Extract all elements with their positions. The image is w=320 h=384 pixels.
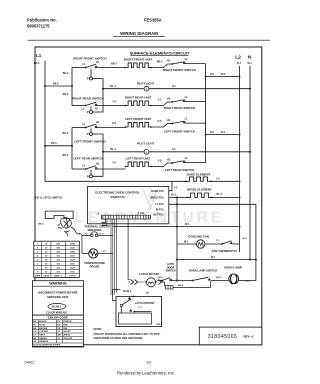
- switch LEFT REAR SWITCH (line side): [171, 162, 173, 164]
- wire gauge table: [34, 241, 80, 277]
- svg-text:BAT P10: BAT P10: [153, 213, 164, 216]
- svg-text:1 9J1: 1 9J1: [138, 212, 145, 215]
- latch cam sketch: [58, 218, 83, 237]
- wire bake to L2: [211, 180, 240, 182]
- svg-text:LATCH MOTOR: LATCH MOTOR: [139, 272, 159, 276]
- svg-text:1321: 1321: [70, 263, 76, 265]
- wire L1 bus: [45, 61, 186, 182]
- heating element BROIL ELEMENT: [187, 193, 212, 197]
- svg-text:RIGHT FRONT SWITCH: RIGHT FRONT SWITCH: [73, 56, 106, 60]
- warning box: [32, 281, 83, 315]
- wire element to line switch: [151, 64, 172, 68]
- svg-text:BL-1: BL-1: [243, 238, 249, 240]
- wire pilot feed: [103, 151, 144, 153]
- svg-text:NC: NC: [146, 293, 150, 295]
- svg-text:WIRING DIAGRAM: WIRING DIAGRAM: [120, 31, 158, 36]
- svg-text:Publication No.: Publication No.: [27, 18, 57, 23]
- wire rail tap to L2 (top): [206, 76, 240, 78]
- switch RIGHT FRONT SWITCH (line side): [171, 63, 173, 65]
- wire N bus: [249, 66, 251, 260]
- svg-text:RIGHT REAR UNIT: RIGHT REAR UNIT: [125, 96, 152, 100]
- svg-text:1321: 1321: [70, 255, 76, 257]
- svg-text:BK-2: BK-2: [63, 93, 69, 96]
- svg-text:5995371175: 5995371175: [27, 24, 50, 29]
- svg-text:COPPER: COPPER: [39, 331, 48, 333]
- svg-text:REV: A: REV: A: [244, 335, 255, 339]
- svg-text:RD: RD: [57, 325, 61, 327]
- svg-text:IN P10: IN P10: [156, 208, 164, 211]
- svg-text:TM. & LATCH SWITCH: TM. & LATCH SWITCH: [35, 196, 62, 200]
- svg-text:BK-3: BK-3: [63, 154, 69, 157]
- svg-text:ELECTRONIC OVEN CONTROL: ELECTRONIC OVEN CONTROL: [95, 190, 140, 194]
- svg-text:LEFT FRONT UNIT: LEFT FRONT UNIT: [125, 117, 152, 121]
- svg-text:BL/W: BL/W: [33, 345, 38, 347]
- svg-text:OVEN LAMP SWITCH: OVEN LAMP SWITCH: [189, 268, 217, 272]
- connector chevrons latch motor left: [131, 280, 138, 285]
- svg-text:W-1: W-1: [247, 62, 252, 65]
- wire harness left stubs: [102, 219, 108, 226]
- heating element RIGHT REAR UNIT: [126, 101, 151, 106]
- svg-text:BK-6: BK-6: [34, 62, 40, 65]
- heating element LEFT REAR UNIT: [126, 162, 151, 167]
- diagram border frame: [35, 47, 262, 345]
- node P terminal top: [90, 129, 92, 133]
- svg-text:WARNING: WARNING: [49, 282, 67, 286]
- svg-text:BLACK: BLACK: [39, 320, 47, 323]
- svg-text:W-1: W-1: [185, 223, 190, 226]
- svg-text:BK-1: BK-1: [217, 277, 223, 279]
- svg-text:GREY: GREY: [39, 335, 46, 337]
- svg-text:PROBE: PROBE: [90, 264, 100, 268]
- svg-text:BR: BR: [33, 328, 37, 330]
- switch RIGHT REAR SWITCH: [72, 105, 86, 107]
- lamp pilot light: [144, 86, 149, 91]
- svg-text:1321: 1321: [70, 268, 76, 270]
- svg-text:BK-2: BK-2: [63, 72, 69, 75]
- sensor temperature probe: [89, 249, 98, 258]
- svg-text:W-1: W-1: [211, 256, 216, 259]
- wire BK-4: [173, 281, 210, 287]
- svg-text:WIRE: WIRE: [35, 276, 41, 278]
- switch LEFT FRONT SWITCH (line side): [171, 123, 173, 125]
- svg-text:PU: PU: [57, 321, 60, 323]
- svg-text:BREAKER: BREAKER: [88, 228, 102, 232]
- svg-text:04/02: 04/02: [25, 360, 36, 365]
- wire EOC bake pin riser: [169, 181, 172, 190]
- wire number oval BL/W-1: [48, 303, 66, 309]
- svg-text:1321: 1321: [70, 272, 76, 274]
- wire switch block rails: [71, 68, 73, 106]
- svg-text:BR-5: BR-5: [157, 60, 163, 63]
- switch auto door: [161, 280, 163, 282]
- svg-text:318045065: 318045065: [208, 334, 238, 340]
- svg-text:O-5: O-5: [158, 120, 163, 123]
- svg-text:BK-6: BK-6: [51, 142, 57, 145]
- wire oven loop top: [177, 259, 256, 261]
- svg-text:RIGHT REAR SWITCH: RIGHT REAR SWITCH: [164, 106, 195, 110]
- connector latch motor right: [155, 280, 162, 285]
- svg-text:TEMP °C: TEMP °C: [54, 276, 63, 278]
- node P terminal bottom: [90, 170, 92, 175]
- svg-text:P: P: [87, 174, 89, 178]
- svg-text:W-1: W-1: [184, 240, 189, 243]
- svg-text:BL-2: BL-2: [171, 194, 177, 197]
- svg-text:CIRCUIT SHOWN WITH ALL CONTROL: CIRCUIT SHOWN WITH ALL CONTROLS SET TO '…: [94, 332, 162, 336]
- svg-text:LEFT REAR SWITCH: LEFT REAR SWITCH: [73, 156, 103, 160]
- svg-text:WHITE: WHITE: [63, 335, 70, 337]
- wire L1 pin to oven loop: [169, 204, 256, 259]
- color code table: [32, 315, 83, 347]
- switch door lock: [120, 304, 122, 306]
- svg-text:R-3: R-3: [221, 73, 226, 76]
- svg-text:BK-2: BK-2: [63, 132, 69, 135]
- svg-text:SURFACE-ELEMENTS-CIRCUIT: SURFACE-ELEMENTS-CIRCUIT: [130, 50, 190, 55]
- switch RIGHT REAR SWITCH (line side): [171, 101, 173, 103]
- wire probe right: [98, 253, 113, 255]
- header rule: [28, 39, 271, 41]
- svg-text:10: 10: [146, 360, 151, 365]
- switch LEFT FRONT SWITCH: [72, 127, 86, 129]
- svg-text:WH: WH: [57, 335, 61, 337]
- switch fan thermostat: [221, 243, 223, 245]
- svg-text:BM-3: BM-3: [157, 324, 163, 326]
- svg-text:SERVICING UNIT.: SERVICING UNIT.: [47, 295, 69, 299]
- svg-text:N: N: [248, 54, 252, 60]
- svg-text:BR-5: BR-5: [111, 63, 117, 66]
- svg-text:LEFT FRONT SWITCH: LEFT FRONT SWITCH: [164, 130, 195, 134]
- EOC P5 connector strip: [102, 215, 151, 219]
- wire breaker right: [98, 234, 113, 236]
- svg-text:PIL-1: PIL-1: [110, 148, 117, 151]
- svg-text:L1: L1: [36, 53, 42, 58]
- svg-text:GREEN: GREEN: [39, 338, 47, 340]
- lamp oven lamp: [229, 274, 239, 284]
- svg-text:LATCH MOTOR: LATCH MOTOR: [135, 301, 155, 305]
- node P terminal bottom: [90, 107, 92, 111]
- svg-text:BL/W-1: BL/W-1: [52, 305, 61, 309]
- motor cooling fan: [197, 240, 205, 248]
- svg-text:RED: RED: [63, 325, 68, 327]
- wire fan to thermostat: [205, 243, 222, 245]
- latch switch bracket: [45, 211, 73, 218]
- wire line-side rail: [205, 64, 207, 163]
- svg-text:BROIL ELEMENT: BROIL ELEMENT: [187, 188, 212, 192]
- svg-text:P: P: [87, 77, 89, 81]
- svg-text:OVEN DOOR CLOSED AND UNLOCKED.: OVEN DOOR CLOSED AND UNLOCKED.: [94, 336, 144, 340]
- svg-text:L2: L2: [235, 54, 241, 60]
- svg-text:LEFT FRONT SWITCH: LEFT FRONT SWITCH: [74, 140, 105, 144]
- svg-text:P: P: [87, 110, 89, 114]
- wire pilot feed: [103, 88, 144, 90]
- svg-text:SWITCH: SWITCH: [166, 270, 176, 273]
- svg-text:COLOR WIRE NO.: COLOR WIRE NO.: [46, 311, 68, 314]
- svg-text:L1 P10: L1 P10: [155, 203, 164, 206]
- node P terminal top: [90, 69, 92, 77]
- capacitor block: [162, 282, 166, 286]
- svg-text:O-5: O-5: [112, 122, 117, 125]
- svg-text:TAN: TAN: [63, 327, 68, 330]
- heating element BAKE ELEMENT: [186, 177, 211, 181]
- part number box: [199, 327, 261, 345]
- svg-text:PIL-1: PIL-1: [110, 85, 117, 88]
- svg-text:1304: 1304: [70, 242, 76, 245]
- svg-text:RIGHT FRONT SWITCH: RIGHT FRONT SWITCH: [163, 68, 196, 72]
- wire element to line switch: [151, 124, 172, 128]
- wire harness right line to latch motor: [128, 219, 130, 280]
- svg-text:P: P: [87, 132, 89, 136]
- wire lamp to loop right: [238, 260, 256, 281]
- wire rail tap to L2 (mid): [206, 134, 240, 136]
- wire EOC broil pin: [169, 196, 187, 198]
- wire breaker left down to probe: [82, 235, 90, 253]
- svg-text:BLUE: BLUE: [39, 325, 45, 327]
- heating element LEFT FRONT UNIT: [126, 122, 151, 127]
- svg-text:1321: 1321: [70, 259, 76, 261]
- lamp pilot light: [144, 149, 149, 154]
- wire fan feed: [177, 243, 196, 245]
- svg-text:R-4: R-4: [237, 62, 242, 65]
- wire switch block rails: [71, 128, 73, 170]
- svg-text:ES300 US: ES300 US: [110, 195, 124, 199]
- switch RIGHT FRONT SWITCH: [72, 67, 86, 69]
- svg-text:1321: 1321: [70, 247, 76, 249]
- door lock outer box: [116, 297, 162, 327]
- svg-text:GAGE: GAGE: [43, 275, 50, 278]
- svg-text:BK-5: BK-5: [53, 83, 59, 86]
- svg-text:BAKE ELEMENT: BAKE ELEMENT: [187, 173, 211, 177]
- wire P5 harness bundle: [110, 219, 112, 295]
- svg-text:BK-4: BK-4: [178, 284, 184, 287]
- svg-text:DISCONNECT POWER BEFORE: DISCONNECT POWER BEFORE: [38, 290, 77, 294]
- switch LEFT REAR SWITCH: [72, 168, 86, 170]
- svg-text:OR: OR: [33, 341, 37, 343]
- wire lamp row: [158, 280, 162, 282]
- watermark leadventure flame: [143, 189, 157, 208]
- svg-text:LEFT REAR SWITCH: LEFT REAR SWITCH: [165, 168, 195, 172]
- breaker thermal circuit breaker: [91, 234, 94, 237]
- svg-text:BROIL P10: BROIL P10: [151, 196, 164, 199]
- svg-text:PURPLE: PURPLE: [63, 321, 72, 323]
- door lock inner box: [119, 313, 152, 324]
- svg-text:LEFT REAR UNIT: LEFT REAR UNIT: [126, 157, 151, 161]
- svg-text:OVEN LAMP: OVEN LAMP: [224, 266, 242, 270]
- svg-text:PILOT LIGHT: PILOT LIGHT: [137, 82, 155, 86]
- wire pilot to N: [149, 88, 250, 90]
- svg-text:Rendered by LeadVenture, Inc.: Rendered by LeadVenture, Inc.: [117, 371, 175, 376]
- svg-text:NOTE:: NOTE:: [94, 327, 103, 331]
- svg-text:FAN THERMOSTAT: FAN THERMOSTAT: [212, 249, 238, 253]
- wire broil to L2: [212, 196, 240, 198]
- svg-text:RIGHT FRONT UNIT: RIGHT FRONT UNIT: [124, 58, 152, 62]
- svg-text:BAKE P10: BAKE P10: [151, 190, 164, 193]
- switch oven lamp switch: [192, 280, 194, 282]
- wire element to line switch: [151, 102, 172, 106]
- svg-text:BROWN: BROWN: [39, 328, 48, 330]
- wire element to line switch: [151, 163, 172, 167]
- svg-text:VIOLET: VIOLET: [63, 331, 71, 333]
- svg-text:& BTU: & BTU: [69, 276, 76, 278]
- wire door lock links: [113, 290, 121, 301]
- wire L2 bus: [239, 66, 241, 252]
- svg-text:BLUE/WHITE STRIPE: BLUE/WHITE STRIPE: [39, 345, 61, 347]
- svg-text:BL/W-1: BL/W-1: [123, 290, 132, 293]
- svg-text:COLOR CODE: COLOR CODE: [48, 316, 68, 320]
- svg-text:R-2: R-2: [210, 131, 215, 134]
- electronic oven control box: [87, 187, 168, 224]
- wire W-1 to L2: [113, 226, 240, 228]
- svg-text:RIGHT REAR SWITCH: RIGHT REAR SWITCH: [72, 96, 103, 100]
- svg-text:BK-1: BK-1: [159, 277, 165, 279]
- svg-text:R-2: R-2: [210, 73, 215, 76]
- svg-text:R-3: R-3: [221, 131, 226, 134]
- wire pilot to N: [149, 151, 250, 153]
- svg-text:CO: CO: [33, 331, 37, 333]
- svg-text:COOLING FAN: COOLING FAN: [188, 235, 209, 239]
- svg-text:GN: GN: [33, 338, 37, 340]
- svg-text:PILOT LIGHT: PILOT LIGHT: [137, 141, 155, 145]
- svg-text:YELLOW: YELLOW: [63, 338, 72, 340]
- svg-text:BL-3: BL-3: [217, 193, 223, 196]
- svg-text:1304: 1304: [70, 250, 76, 253]
- heating element RIGHT FRONT UNIT: [126, 63, 151, 68]
- svg-text:BK-8: BK-8: [39, 223, 45, 225]
- svg-text:ORANGE: ORANGE: [39, 340, 49, 343]
- svg-text:FES355A: FES355A: [144, 17, 162, 22]
- svg-text:TN: TN: [57, 328, 60, 330]
- svg-text:BK: BK: [33, 321, 37, 323]
- wire oven loop left riser: [176, 197, 178, 280]
